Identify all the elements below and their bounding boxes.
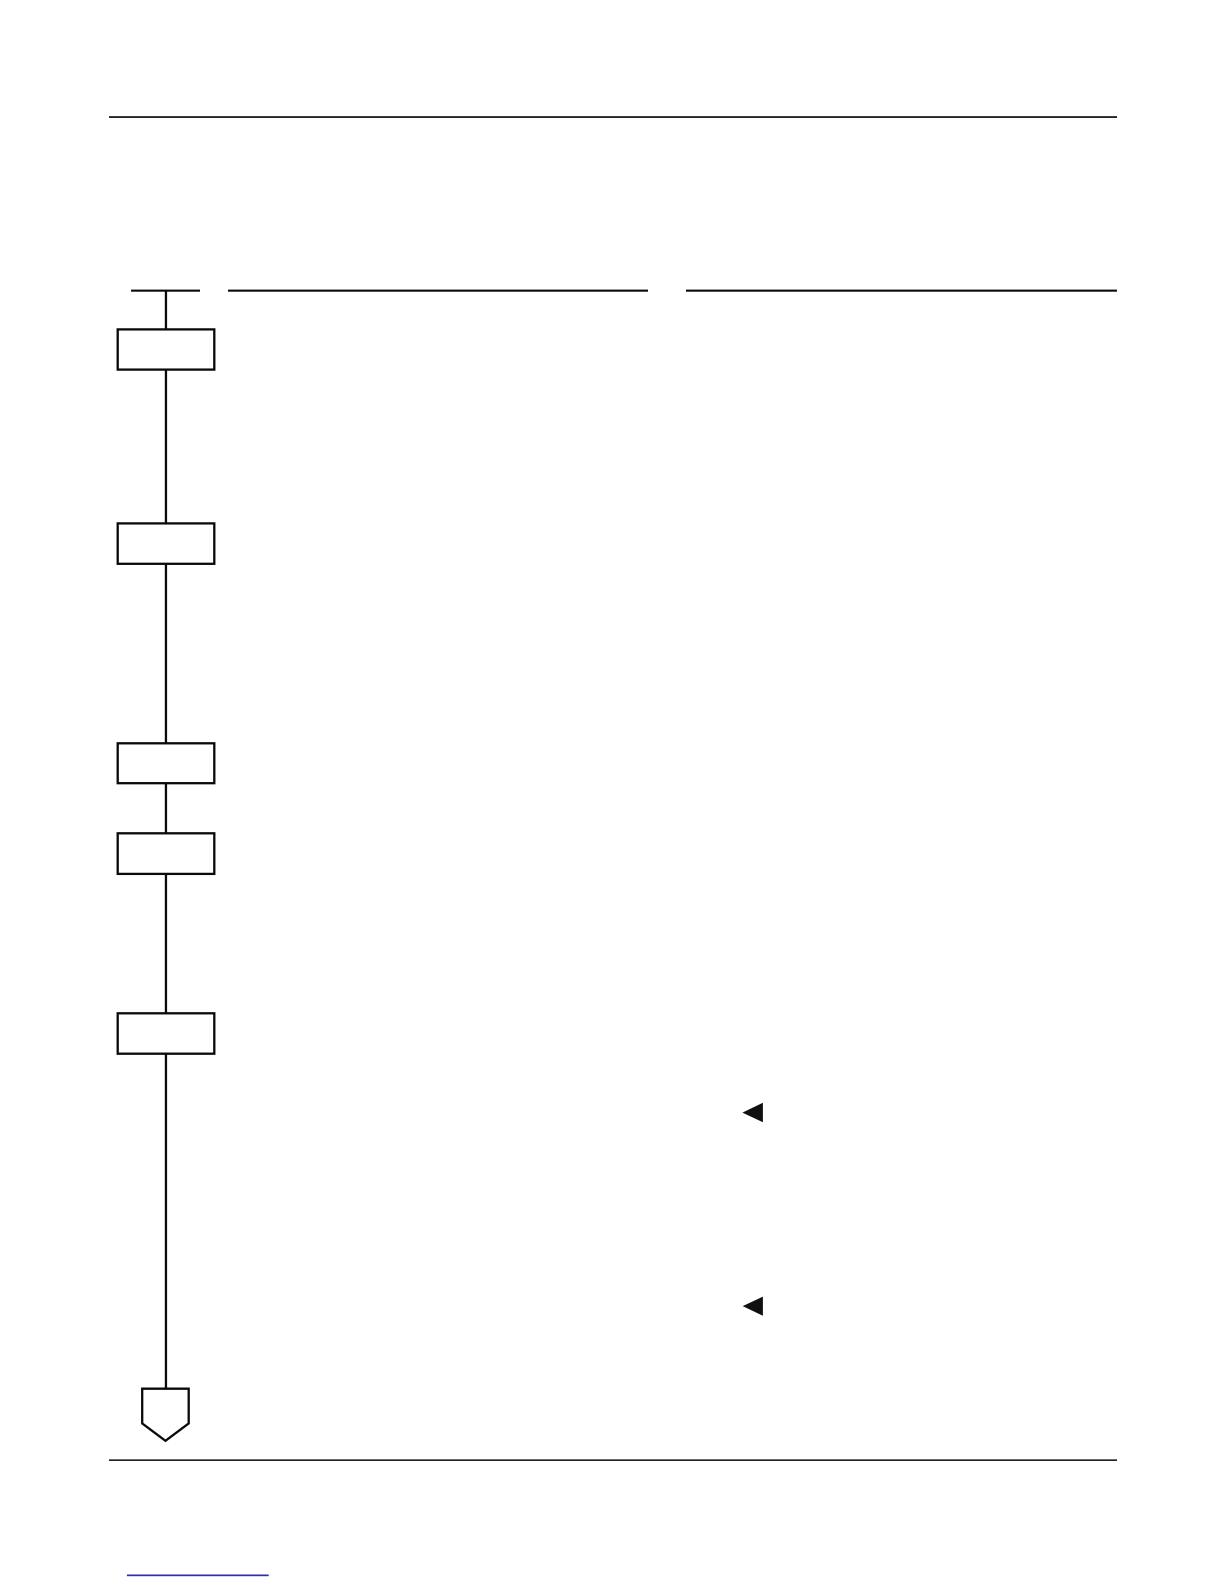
header rule: [109, 116, 1117, 118]
column heading underline right: [686, 290, 1117, 292]
marker triangle 1: [742, 1103, 763, 1123]
process box 1: [118, 329, 215, 369]
wire: vertical flow line: [165, 290, 167, 1389]
process box 4: [118, 833, 215, 874]
footer link underline: [127, 1575, 269, 1577]
process box 5: [118, 1013, 215, 1053]
column heading underline middle: [228, 290, 648, 292]
off-page connector pentagon: [142, 1389, 189, 1441]
process box 2: [118, 523, 215, 563]
footer rule: [109, 1459, 1117, 1461]
flowchart title underline left (above flow column): [131, 290, 200, 292]
process box 3: [118, 743, 215, 783]
marker triangle 2: [743, 1297, 763, 1316]
